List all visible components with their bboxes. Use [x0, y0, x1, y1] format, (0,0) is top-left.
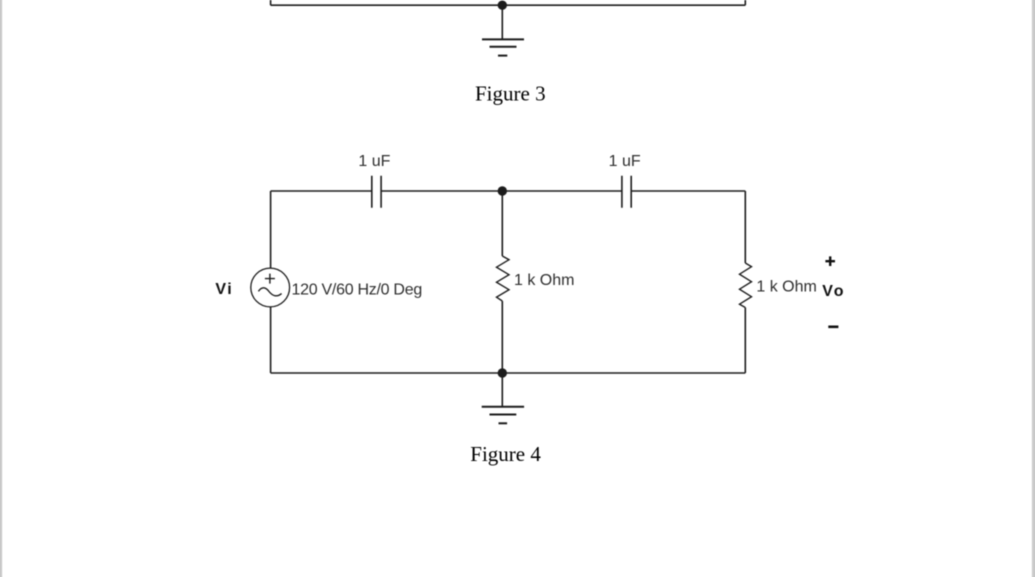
svg-text:1 k Ohm: 1 k Ohm	[756, 279, 816, 296]
svg-text:V: V	[215, 281, 226, 298]
svg-text:Figure 4: Figure 4	[470, 442, 541, 466]
svg-text:1 k Ohm: 1 k Ohm	[514, 272, 574, 289]
svg-text:1 uF: 1 uF	[358, 153, 390, 170]
svg-text:i: i	[227, 281, 231, 298]
svg-text:V: V	[822, 283, 833, 300]
svg-text:1 uF: 1 uF	[609, 153, 641, 170]
svg-text:120 V/60 Hz/0 Deg: 120 V/60 Hz/0 Deg	[292, 282, 422, 299]
svg-text:o: o	[834, 283, 844, 300]
svg-text:Figure 3: Figure 3	[475, 81, 546, 105]
